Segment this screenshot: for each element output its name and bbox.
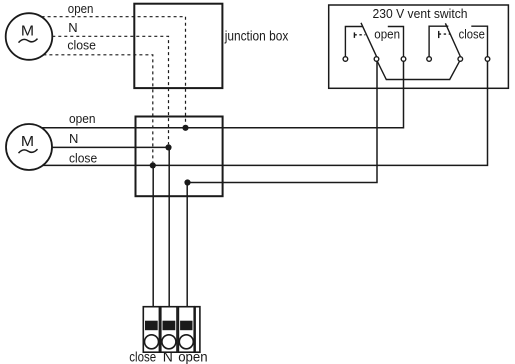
S2 left terminal wire [429,26,448,57]
S2 actuator bar [438,31,440,38]
wire M1 close (dashed) [43,55,152,162]
S2 lever [445,23,460,56]
wire M1 open (dashed) [42,17,186,125]
svg-text:open: open [69,111,96,126]
switch S1 (open) [343,23,406,62]
node A (open junction) [182,125,188,131]
svg-text:open: open [68,1,94,16]
terminal close cell [143,307,159,353]
S2 common terminal [458,57,463,62]
wire common link S1-S2 [377,61,459,79]
switch S2 (close) [427,23,490,61]
wire N: M2 to node B [52,146,169,148]
junction box J2 [136,117,223,197]
motor M2 [6,124,52,170]
wire common net: node D to switch commons [188,61,378,182]
S1 left terminal wire [345,27,362,57]
svg-text:open: open [374,27,400,42]
svg-text:close: close [459,27,485,42]
svg-text:M: M [21,133,34,150]
terminal N cell [161,307,177,353]
S2 right contact wire [471,26,487,57]
wire close net: M2 to vent switch S2 right contact [43,61,488,165]
S1 actuator dashes [354,34,365,36]
svg-text:close: close [129,349,156,364]
svg-text:open: open [178,349,207,364]
node D (common junction) [184,179,190,185]
S1 common terminal [374,57,379,62]
svg-text:close: close [69,150,97,165]
S2 actuator dashes [439,33,450,35]
wire open net: M2 to vent switch S1 right contact [42,61,404,128]
S1 actuator bar [353,32,355,38]
S1 left terminal [343,57,348,62]
node B (N junction) [165,144,171,150]
S1 right contact wire [388,27,404,57]
wire M1 N (dashed) [52,36,168,144]
S1 lever [361,23,377,57]
terminal end plate [195,307,200,353]
junction box J1 [134,4,222,88]
wire node D to terminal open [186,183,188,307]
S1 right terminal [401,57,406,62]
S2 right terminal [485,57,490,62]
svg-text:junction box: junction box [224,27,288,43]
terminal open cell [178,307,194,353]
svg-text:close: close [67,38,96,53]
motor M1 [6,13,53,60]
node C (close junction) [150,162,156,168]
svg-text:M: M [21,23,34,40]
wire node B to terminal N [168,147,170,306]
svg-text:N: N [68,20,77,35]
wire node C to terminal close [152,165,154,306]
terminal block TB1 [143,307,200,353]
svg-text:N: N [69,131,78,146]
vent switch box [329,5,509,88]
svg-text:230 V vent switch: 230 V vent switch [373,6,468,21]
svg-text:N: N [163,349,173,364]
S2 left terminal [427,57,432,62]
